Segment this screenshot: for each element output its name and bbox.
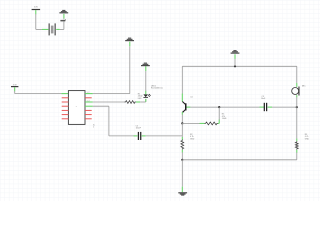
svg-text:GND: GND xyxy=(305,138,310,140)
svg-text:10kΩ: 10kΩ xyxy=(222,118,227,120)
svg-text:100nF: 100nF xyxy=(136,128,142,130)
svg-text:GND: GND xyxy=(190,138,195,140)
svg-text:Red (633nm): Red (633nm) xyxy=(151,88,163,90)
svg-text:MIC: MIC xyxy=(302,86,306,88)
svg-text:OUT: OUT xyxy=(87,100,90,102)
svg-text:LED: LED xyxy=(138,98,142,100)
svg-text:1: 1 xyxy=(93,127,94,129)
svg-text:x: x xyxy=(76,106,77,108)
svg-text:Q1: Q1 xyxy=(190,96,192,98)
